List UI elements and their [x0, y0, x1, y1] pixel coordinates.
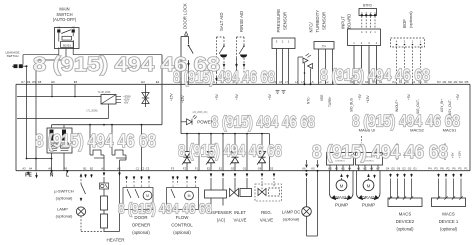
- wires: dispenser drops: [210, 173, 212, 176]
- svg-text:P4: P4: [428, 166, 432, 170]
- svg-text:M6: M6: [448, 80, 452, 84]
- svg-text:L5: L5: [302, 80, 305, 84]
- svg-text:(24_2006_2C): (24_2006_2C): [193, 112, 208, 114]
- svg-text:G4: G4: [386, 166, 390, 170]
- svg-text:PUMP: PUMP: [362, 203, 375, 208]
- wires: inlet valve drops: [234, 173, 236, 176]
- svg-text:RINSE AID: RINSE AID: [239, 11, 244, 32]
- wire: input board pin 2: [361, 46, 363, 85]
- svg-text:(optional): (optional): [132, 230, 150, 235]
- leakage switch contacts: [14, 64, 18, 68]
- svg-text:NTC-: NTC-: [307, 96, 311, 104]
- wires: MACS device1 drops: [438, 174, 440, 177]
- svg-text:+15V: +15V: [170, 93, 174, 101]
- door opener switches: [127, 189, 131, 198]
- inlet valve body: [230, 189, 239, 197]
- wire: N terminal drop: [51, 169, 53, 171]
- wire: relay block legs down: [51, 153, 53, 171]
- svg-text:8 (915) 494 46 68: 8 (915) 494 46 68: [35, 131, 156, 151]
- wire: main switch A1 leg: [58, 33, 60, 42]
- svg-text:VALVE: VALVE: [234, 217, 247, 222]
- svg-text:+5V: +5V: [124, 100, 129, 104]
- flow control motor: [185, 191, 194, 200]
- svg-text:M4: M4: [443, 80, 447, 84]
- wire: relay 2 feed: [111, 125, 113, 155]
- svg-text:E1: E1: [219, 166, 223, 170]
- wire: relay 1 out to A1: [103, 155, 105, 171]
- svg-text:TURB+: TURB+: [328, 96, 332, 107]
- wire: lamp chain down: [80, 216, 82, 231]
- svg-text:M: M: [340, 183, 344, 188]
- svg-text:A4: A4: [29, 166, 33, 170]
- svg-text:OPENER: OPENER: [132, 223, 151, 228]
- main switch internal resistor: [62, 36, 72, 40]
- svg-text:8 (915) 494 46 68: 8 (915) 494 46 68: [320, 67, 430, 85]
- wire: A3 stub: [27, 169, 29, 171]
- ground marks (pressure): [276, 90, 280, 92]
- svg-text:SWITCH: SWITCH: [7, 54, 19, 58]
- wire: triac column G3: [234, 134, 236, 171]
- wire: mains feed to power supply: [17, 96, 101, 98]
- wires: drain pump connector to edge: [358, 165, 360, 171]
- svg-text:SIO_BUS: SIO_BUS: [350, 98, 354, 112]
- wire: B2 stub: [91, 174, 93, 177]
- lamp DC bulb: [302, 207, 312, 217]
- wire: E6 drop: [51, 84, 53, 96]
- svg-text:DOOR LOCK: DOOR LOCK: [183, 3, 188, 29]
- u-switch contact: [81, 184, 86, 194]
- svg-text:M5: M5: [465, 80, 469, 84]
- junction: leakage node: [26, 65, 28, 67]
- svg-text:8 (915) 494 46 68: 8 (915) 494 46 68: [118, 201, 212, 218]
- svg-text:(optional): (optional): [173, 230, 191, 235]
- svg-text:K6: K6: [302, 166, 306, 170]
- main board right edge: [469, 84, 471, 170]
- svg-text:M2: M2: [459, 80, 463, 84]
- svg-text:A3: A3: [22, 166, 26, 170]
- svg-text:PE: PE: [25, 172, 32, 178]
- svg-text:DEVICE2: DEVICE2: [396, 219, 415, 224]
- svg-text:D6: D6: [27, 80, 31, 84]
- wire: B1 stub: [85, 174, 87, 177]
- main switch contact blade: [61, 30, 71, 34]
- svg-text:P5: P5: [458, 166, 462, 170]
- svg-text:VEE: VEE: [320, 95, 324, 101]
- svg-text:(optional): (optional): [440, 226, 458, 231]
- wires: reg valve drops (dashed): [261, 173, 263, 176]
- svg-text:+15V: +15V: [366, 95, 370, 103]
- wires: BTFD to input board (dashed): [361, 16, 363, 29]
- svg-text:M: M: [367, 183, 371, 188]
- svg-text:+5V: +5V: [235, 93, 239, 100]
- svg-text:(AUTO-OFF): (AUTO-OFF): [53, 17, 77, 22]
- svg-text:D7: D7: [21, 80, 25, 84]
- svg-text:E4: E4: [156, 80, 160, 84]
- svg-text:LAMP DC: LAMP DC: [282, 209, 301, 214]
- svg-text:+5V: +5V: [358, 93, 362, 100]
- svg-text:WASH: WASH: [335, 195, 349, 200]
- door lock frame: [181, 36, 189, 38]
- triac (heater zone): [151, 134, 153, 171]
- svg-text:G6: G6: [258, 166, 262, 170]
- svg-text:REG.: REG.: [261, 210, 272, 215]
- wire: direct column G1: [246, 134, 248, 171]
- svg-text:M7: M7: [437, 80, 441, 84]
- svg-text:D8: D8: [38, 80, 42, 84]
- relay coil bars: [50, 130, 54, 141]
- svg-text:VALVE: VALVE: [260, 217, 274, 222]
- wire: relay 2 out to A2: [119, 149, 121, 150]
- svg-text:8 (915) 494 46 68: 8 (915) 494 46 68: [312, 142, 448, 162]
- svg-text:A2: A2: [117, 166, 121, 170]
- drain pump motor: [356, 171, 358, 193]
- wire: rinse aid arrows to board: [236, 64, 238, 67]
- power LED: [181, 121, 187, 123]
- wire: mid distribution bus: [181, 133, 270, 135]
- wash pump connector box: [327, 153, 354, 166]
- junction dots on top edge (turbidity): [304, 83, 306, 85]
- wires: flow control drops: [172, 176, 174, 179]
- wire: optics common: [297, 57, 299, 84]
- power supply outputs +335V +15V +5V: [116, 95, 121, 97]
- svg-text:NTC/: NTC/: [309, 22, 314, 33]
- wire: salt aid arrows to board: [216, 64, 218, 67]
- svg-text:L6: L6: [311, 80, 314, 84]
- svg-text:C1: C1: [136, 166, 140, 170]
- svg-text:+5V: +5V: [407, 93, 411, 100]
- svg-text:M: M: [188, 194, 191, 198]
- wire: E4 rail inside board: [161, 84, 163, 124]
- svg-text:PRESSURE: PRESSURE: [276, 9, 281, 33]
- heater element 1: [101, 196, 108, 210]
- svg-text:N: N: [50, 173, 54, 179]
- svg-text:SALT AID: SALT AID: [219, 13, 224, 31]
- svg-text:A6: A6: [48, 166, 52, 170]
- wire: input board pin 1: [353, 46, 355, 85]
- svg-text:G0: G0: [408, 166, 412, 170]
- svg-text:M: M: [146, 194, 149, 198]
- wire: input board pin 4: [376, 46, 378, 85]
- svg-text:HEATER: HEATER: [107, 238, 126, 243]
- wire: lamp DC return: [306, 216, 308, 236]
- wire: heater return: [103, 228, 105, 232]
- svg-text:C2: C2: [141, 166, 145, 170]
- svg-text:+15V: +15V: [458, 150, 462, 158]
- main switch S1 box: [55, 28, 80, 49]
- wire: K6 drop to lamp DC: [306, 170, 308, 172]
- relay block outline: [47, 128, 72, 153]
- svg-text:71-08_2006: 71-08_2006: [98, 91, 111, 94]
- u-switch chain from B2: [80, 175, 82, 177]
- svg-text:L: L: [66, 173, 69, 179]
- input board box: [348, 29, 381, 46]
- svg-text:T>: T>: [322, 44, 326, 48]
- heater thermal cutout: [100, 183, 109, 189]
- triac T3: [231, 152, 238, 158]
- door opener motor: [143, 191, 152, 200]
- wire: door lock N5 leg into board: [180, 84, 182, 133]
- reg valve body: [258, 189, 266, 196]
- wire: main switch A2 leg: [72, 33, 74, 37]
- svg-text:K5: K5: [311, 166, 315, 170]
- svg-text:MACS: MACS: [442, 211, 455, 216]
- svg-text:(optional): (optional): [56, 196, 73, 201]
- svg-text:MAIN: MAIN: [59, 7, 69, 12]
- svg-text:L8: L8: [279, 80, 282, 84]
- lamp AC: [76, 207, 85, 216]
- svg-text:F1: F1: [195, 166, 199, 170]
- wire: direct column F1: [198, 134, 200, 171]
- main board top edge: [16, 83, 470, 85]
- svg-text:ASY_IN+: ASY_IN+: [440, 99, 444, 112]
- svg-text:SENSOR: SENSOR: [322, 12, 327, 30]
- svg-text:+5V: +5V: [268, 93, 272, 100]
- svg-text:(71_2006): (71_2006): [87, 110, 98, 113]
- svg-text:F2: F2: [183, 166, 187, 170]
- svg-text:P8: P8: [440, 166, 444, 170]
- svg-text:+5V: +5V: [215, 93, 219, 100]
- wires: BOF dashed drops: [396, 47, 398, 84]
- svg-text:SWITCH: SWITCH: [56, 12, 72, 17]
- turbidity optics: [303, 58, 308, 63]
- wire: C2 feed from L rail: [141, 125, 143, 171]
- svg-text:DRAIN: DRAIN: [361, 195, 375, 200]
- svg-text:E2: E2: [207, 166, 211, 170]
- svg-text:INLET: INLET: [234, 210, 246, 215]
- svg-text:G5: G5: [270, 166, 274, 170]
- triac T1: [183, 152, 190, 158]
- svg-text:E6: E6: [51, 80, 55, 84]
- svg-text:D5: D5: [32, 80, 36, 84]
- door lock contact: [188, 45, 190, 47]
- svg-text:P6: P6: [452, 166, 456, 170]
- wash pump motor: [329, 171, 331, 193]
- svg-text:BTFD: BTFD: [363, 4, 372, 8]
- svg-text:L4: L4: [295, 80, 298, 84]
- svg-text:G3: G3: [231, 166, 235, 170]
- main board bottom edge: [16, 170, 470, 172]
- wire: door lock rail down (E4/N5): [161, 55, 163, 85]
- svg-text:B2-B1: B2-B1: [63, 43, 71, 47]
- door opener box: [123, 188, 153, 210]
- svg-text:BOARD: BOARD: [347, 14, 352, 29]
- MACS device2 box: [388, 198, 422, 207]
- wire: direct column E1: [222, 134, 224, 171]
- svg-text:BOF: BOF: [402, 19, 407, 28]
- wire: PE ground drop: [35, 159, 37, 171]
- wire: D6 rail to relay area / N rail: [26, 84, 28, 158]
- drain pump connector box: [356, 153, 383, 166]
- svg-text:(optional): (optional): [408, 11, 413, 28]
- wire: pressure sensor pin 1: [288, 49, 290, 85]
- MACS UI stub: [361, 136, 363, 143]
- svg-text:P2: P2: [446, 166, 450, 170]
- wire: relay 1 feed: [89, 125, 91, 155]
- svg-text:E5: E5: [74, 80, 78, 84]
- svg-text:8 (915) 494 46 68: 8 (915) 494 46 68: [173, 69, 275, 87]
- svg-text:A1: A1: [57, 26, 61, 30]
- main switch aux block B2 B1: [61, 42, 74, 48]
- svg-text:A1: A1: [101, 166, 105, 170]
- svg-text:A2: A2: [71, 26, 75, 30]
- wire: leakage node down to board pin D6: [26, 66, 28, 84]
- svg-text:TURBIDITY: TURBIDITY: [315, 10, 320, 33]
- svg-text:PUMP: PUMP: [335, 203, 348, 208]
- main switch terminal A1: [57, 29, 60, 32]
- TVS suppressor: [145, 84, 147, 107]
- reg valve outline (dashed): [255, 184, 282, 201]
- svg-text:G1: G1: [413, 166, 417, 170]
- svg-text:B2: B2: [90, 166, 94, 170]
- svg-text:G5: G5: [391, 166, 395, 170]
- wire: optics left leg: [304, 63, 306, 84]
- svg-text:µ-SWITCH: µ-SWITCH: [54, 189, 74, 194]
- flow control switch: [171, 189, 175, 198]
- svg-text:(optional): (optional): [56, 214, 73, 219]
- wire: B pins jog: [65, 49, 67, 61]
- wire: A2 to door lock rail: [73, 54, 162, 56]
- wire: triac column E2: [210, 134, 212, 171]
- svg-text:P3: P3: [434, 166, 438, 170]
- wire: main switch to leakage (L in): [23, 54, 59, 56]
- wire: relay block legs up: [51, 125, 53, 128]
- inlet valve coil: [240, 189, 252, 197]
- wire: optics right leg: [310, 69, 312, 85]
- svg-text:A5: A5: [64, 166, 68, 170]
- svg-text:LAMP: LAMP: [57, 207, 68, 212]
- svg-text:DEVICE 1: DEVICE 1: [439, 219, 459, 224]
- svg-text:INPUT: INPUT: [341, 16, 346, 29]
- relay contact 1: [90, 150, 104, 155]
- wire: input board pin 3: [368, 46, 370, 85]
- MACS device1 box: [432, 198, 466, 207]
- svg-text:C3: C3: [146, 166, 150, 170]
- relay aux contacts: [49, 143, 57, 148]
- svg-text:8 (915) 494 46 68: 8 (915) 494 46 68: [178, 141, 282, 161]
- svg-text:SENSOR: SENSOR: [283, 12, 288, 30]
- wire: N bus horizontal: [27, 158, 52, 160]
- reg valve coil (dashed): [269, 188, 280, 196]
- svg-text:F3: F3: [171, 166, 175, 170]
- svg-text:+5V: +5V: [451, 151, 455, 158]
- svg-text:8 (915) 494 46 68: 8 (915) 494 46 68: [352, 113, 460, 131]
- wire: lamp chain to heater return (dashed): [81, 231, 104, 233]
- svg-text:G2: G2: [402, 166, 406, 170]
- wire: triac column F2: [186, 134, 188, 171]
- svg-text:CONTROL: CONTROL: [171, 223, 193, 228]
- triac T2: [207, 152, 214, 158]
- salt aid reed switch: [217, 36, 225, 38]
- svg-text:8 (915) 494 46 68: 8 (915) 494 46 68: [211, 114, 315, 132]
- wire: triac column G6: [261, 134, 263, 171]
- dispenser coil: [205, 190, 227, 198]
- rinse aid reed switch: [237, 36, 245, 38]
- main switch terminal A2: [72, 29, 75, 32]
- door lock plunger mark: [185, 32, 188, 36]
- svg-text:+5V: +5V: [456, 93, 460, 100]
- svg-text:+15V: +15V: [181, 95, 185, 103]
- svg-text:M3: M3: [454, 80, 458, 84]
- wire: door lock switched leg with arrow: [188, 62, 190, 66]
- wire: E5 drop: [74, 84, 76, 96]
- svg-text:(optional): (optional): [283, 216, 300, 221]
- wires: door opener drops: [126, 176, 128, 179]
- flow control box: [167, 188, 199, 210]
- BOF box (dashed): [391, 38, 425, 47]
- svg-text:G1: G1: [243, 166, 247, 170]
- wire: L rail horizontal y=124.7: [52, 124, 163, 126]
- wire: leakage switch to node: [23, 65, 27, 67]
- svg-text:G6: G6: [397, 166, 401, 170]
- wire: pressure sensor pin 3: [276, 49, 278, 85]
- wires: MACS device2 drops: [390, 174, 392, 177]
- svg-text:(AC): (AC): [217, 217, 226, 222]
- svg-text:IN/OUT+: IN/OUT+: [395, 99, 399, 112]
- BTFD box: [359, 9, 377, 16]
- wire: L terminal drop: [66, 170, 68, 172]
- svg-text:MACS: MACS: [399, 211, 412, 216]
- triac T4: [258, 152, 265, 158]
- svg-text:(optional): (optional): [396, 226, 414, 231]
- svg-text:B1: B1: [83, 166, 87, 170]
- heater element 2: [101, 214, 108, 228]
- relay contact 2: [112, 150, 126, 155]
- wire: NTC box legs: [318, 49, 320, 84]
- heater link: [103, 210, 105, 214]
- wire: power supply return: [108, 104, 110, 119]
- wires: wash pump connector to edge: [329, 165, 331, 171]
- svg-text:E3: E3: [141, 80, 145, 84]
- wire: D8 rail down: [35, 84, 37, 158]
- wire: bus end corner down (G5): [269, 134, 271, 171]
- wire: pressure sensor pin 2: [282, 49, 284, 85]
- svg-text:L7: L7: [285, 80, 288, 84]
- svg-text:P1: P1: [464, 166, 468, 170]
- power supply module (AC/DC): [101, 95, 116, 105]
- wire: A1 to heater: [103, 172, 105, 175]
- main board left edge: [15, 84, 17, 170]
- pressure sensor box: [272, 38, 295, 49]
- NTC sensor box T>: [314, 42, 334, 50]
